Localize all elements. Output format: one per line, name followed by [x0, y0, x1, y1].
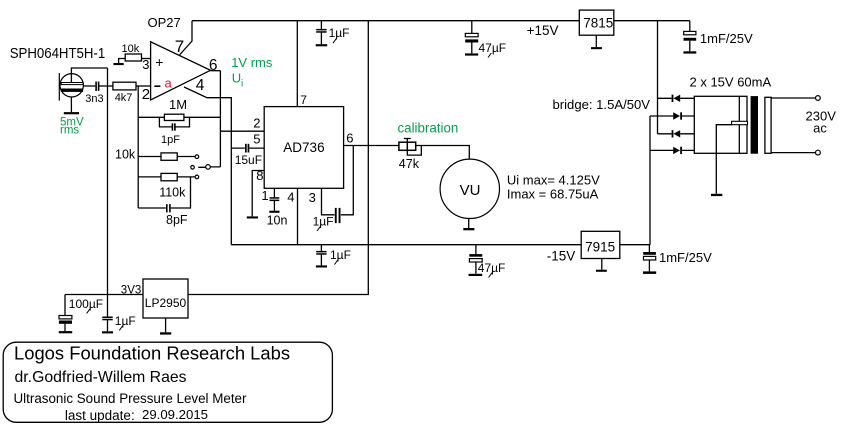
diode D1: [672, 95, 681, 102]
capacitor 47uF bottom lead: [475, 245, 477, 274]
wire 3n3 to 4k7: [99, 85, 113, 87]
svg-text:1pF: 1pF: [161, 134, 180, 146]
svg-text:15uF: 15uF: [235, 153, 262, 167]
trimmer 47k wiper loop: [407, 139, 421, 156]
svg-text:Ultrasonic Sound Pressure Leve: Ultrasonic Sound Pressure Level Meter: [14, 391, 247, 406]
svg-text:1mF/25V: 1mF/25V: [659, 250, 712, 265]
wire D3 row: [658, 133, 695, 135]
svg-text:dr.Godfried-Willem Raes: dr.Godfried-Willem Raes: [15, 369, 187, 386]
wire primary to terminal bottom: [771, 152, 816, 154]
capacitor 15uF: [245, 144, 249, 153]
svg-text:Ui max= 4.125V: Ui max= 4.125V: [507, 172, 600, 187]
svg-text:1µF: 1µF: [115, 314, 136, 328]
svg-text:1µF: 1µF: [329, 26, 350, 40]
trimmer 47k: [399, 142, 416, 150]
wire 110k branch: [138, 176, 195, 178]
diode D3: [672, 130, 681, 137]
svg-text:47µF: 47µF: [479, 41, 507, 55]
svg-text:4: 4: [196, 77, 205, 94]
wire -15V bottom rail: [231, 244, 650, 246]
capacitor 1pF: [172, 123, 176, 130]
svg-text:7: 7: [300, 93, 307, 107]
wire VU to ground: [468, 219, 470, 229]
svg-text:3V3: 3V3: [121, 284, 141, 296]
switch contact 110k: [195, 175, 199, 179]
wire 1pF parallel loop: [159, 117, 189, 127]
wire +15V top rail: [192, 20, 690, 22]
capacitor 47uF +15V: [465, 33, 478, 55]
svg-text:calibration: calibration: [398, 120, 459, 135]
svg-text:a: a: [165, 75, 173, 90]
svg-text:AD736: AD736: [283, 140, 324, 155]
capacitor 3n3: [95, 82, 99, 91]
wire output to AD736 pin2: [220, 130, 264, 132]
svg-text:+: +: [155, 54, 163, 70]
wire 3V3 node horizontal: [65, 294, 143, 296]
wire AD736 pin8 to ground: [252, 171, 264, 217]
svg-text:100µF: 100µF: [69, 297, 103, 311]
wire AD736 pin3 to 1uF: [322, 188, 335, 215]
svg-text:5: 5: [253, 132, 260, 147]
regulator 7915 ground lead: [601, 259, 603, 270]
wire LP2950 ground lead: [165, 318, 167, 332]
svg-text:ac: ac: [813, 120, 827, 135]
regulator LP2950: [143, 279, 188, 318]
wire 3V3 bias vertical: [107, 68, 109, 295]
wire bridge negative vertical: [649, 116, 651, 245]
svg-text:1: 1: [261, 188, 268, 203]
svg-text:7915: 7915: [585, 240, 615, 255]
svg-text:i: i: [241, 79, 243, 90]
svg-text:1µF: 1µF: [313, 214, 334, 228]
wire D4 row: [650, 149, 694, 151]
transformer center tap slot: [732, 121, 748, 124]
capacitor 100uF: [59, 316, 72, 334]
capacitor 1uF 3V3: [102, 317, 113, 334]
regulator 7815: [579, 10, 614, 35]
svg-text:3: 3: [142, 57, 149, 72]
svg-text:3: 3: [309, 190, 316, 205]
ground transformer center tap: [711, 194, 722, 196]
capacitor 1mF/25V -15V: [643, 252, 656, 274]
capacitor 1uF top rail lead: [320, 21, 322, 29]
capacitor 10n lead: [273, 188, 275, 210]
svg-text:Logos Foundation Research Labs: Logos Foundation Research Labs: [14, 342, 290, 363]
svg-text:LP2950: LP2950: [145, 296, 187, 310]
capacitor 1uF top rail: [316, 29, 328, 46]
trimmer 47k wiper top bar: [404, 138, 411, 140]
ground 7815: [591, 47, 602, 49]
wire primary to terminal top: [771, 97, 816, 99]
capacitor 1mF top lead: [689, 21, 691, 52]
terminal 230V bottom: [816, 150, 821, 155]
wire OP27 pin7 to +15V rail: [180, 21, 193, 55]
resistor 10k noninverting: [113, 54, 150, 65]
svg-text:8pF: 8pF: [166, 213, 188, 227]
svg-text:6: 6: [346, 130, 353, 145]
wire feedback bus vertical: [137, 86, 139, 208]
mu tail 1uF 3V3: [119, 326, 122, 331]
wire bridge positive vertical: [657, 21, 659, 134]
minus input: [154, 85, 160, 87]
switch pole: [206, 165, 211, 170]
svg-text:4: 4: [287, 190, 294, 205]
wire 15uF to pin5: [231, 147, 264, 149]
svg-text:last update:: last update:: [65, 408, 135, 423]
wire transformer center tap to ground: [716, 125, 731, 194]
wire 47k to VU meter: [416, 146, 470, 160]
terminal 230V top: [816, 96, 821, 101]
wire OP27 pin4 to -15V: [184, 87, 231, 245]
capacitor 1mF/25V +15V: [683, 31, 696, 53]
ground VU: [463, 228, 474, 230]
capacitor 10n: [269, 197, 279, 213]
capacitor 1uF 3V3 lead: [107, 295, 109, 332]
capacitor 47uF -15V: [469, 254, 483, 276]
wire switch pole to output bus: [198, 166, 220, 168]
ground LP2950: [160, 332, 171, 334]
capacitor 1mF bottom lead: [648, 245, 650, 272]
svg-text:Imax = 68.75uA: Imax = 68.75uA: [507, 186, 599, 201]
wire D2 row: [650, 115, 694, 117]
transformer T1 secondary: [694, 96, 747, 153]
transformer core: [751, 96, 758, 154]
svg-text:rms: rms: [60, 124, 79, 136]
capacitor 1uF below rail lead: [320, 245, 322, 266]
wire 8pF branch: [138, 177, 190, 208]
wire 4k7 to OP27 pin2: [136, 85, 151, 87]
switch contact 10k: [195, 155, 199, 159]
svg-text:U: U: [232, 71, 241, 86]
mu tail 100uF: [87, 309, 90, 314]
svg-text:1M: 1M: [169, 97, 187, 112]
microphone bottom lead: [70, 97, 72, 112]
svg-text:-15V: -15V: [547, 248, 576, 263]
svg-text:6: 6: [209, 57, 218, 74]
svg-text:2 x 15V 60mA: 2 x 15V 60mA: [690, 74, 772, 89]
svg-text:1µF: 1µF: [330, 248, 351, 262]
wire LP2950 input from +15: [188, 21, 368, 295]
capacitor 1uF below -15V rail: [316, 251, 327, 268]
svg-text:10k: 10k: [115, 148, 136, 162]
wire 1M branch: [138, 116, 220, 118]
wire AD736 pin6 output: [344, 145, 399, 147]
resistor 1M: [164, 114, 184, 120]
resistor 10k gain: [161, 153, 177, 160]
switch contact mid: [191, 166, 195, 170]
wire mic top lead to bias line: [71, 68, 107, 83]
svg-text:1mF/25V: 1mF/25V: [700, 31, 753, 46]
regulator 7815 ground lead: [595, 35, 597, 47]
wire OP27 output: [211, 70, 221, 72]
diode D4: [673, 147, 682, 154]
microphone SPH064HT5H-1: [59, 73, 83, 114]
regulator 7915: [581, 231, 620, 258]
svg-text:7: 7: [175, 37, 184, 56]
trimmer 47k wiper line: [406, 142, 408, 150]
wire mic output to 3n3: [83, 85, 95, 87]
svg-text:8: 8: [256, 168, 263, 183]
resistor 110k: [161, 173, 177, 180]
transformer T1 primary: [765, 97, 771, 153]
svg-text:1V rms: 1V rms: [231, 55, 273, 70]
mu tail 1uF below rail: [334, 260, 337, 265]
wire AD736 pin7 to +15V: [296, 21, 298, 107]
capacitor 100uF lead: [64, 295, 66, 332]
mu tail 1uF pin3: [317, 226, 320, 231]
svg-text:3n3: 3n3: [85, 93, 103, 105]
svg-text:2: 2: [253, 116, 260, 131]
resistor 4k7: [113, 82, 136, 90]
svg-text:110k: 110k: [159, 185, 186, 199]
svg-text:+15V: +15V: [527, 23, 559, 38]
svg-text:4k7: 4k7: [115, 92, 133, 104]
svg-text:29.09.2015: 29.09.2015: [142, 407, 208, 422]
capacitor 1uF top rail lead2: [320, 33, 322, 45]
wire 1uF pin3 to pin6: [341, 146, 353, 215]
diode D2: [673, 112, 682, 119]
mu tail 47uF top: [488, 53, 491, 58]
svg-text:VU: VU: [460, 182, 481, 199]
capacitor 47uF top lead: [471, 21, 473, 54]
wire 10k branch: [138, 156, 195, 158]
capacitor 1uF pin3: [335, 208, 341, 223]
capacitor 8pF: [166, 204, 171, 212]
svg-text:10k: 10k: [122, 43, 140, 55]
mu tail 1uF top: [333, 39, 336, 44]
wire output bus vertical: [219, 71, 221, 167]
svg-text:SPH064HT5H-1: SPH064HT5H-1: [10, 45, 106, 62]
title box: [3, 342, 332, 422]
mu tail 47uF bottom: [489, 273, 492, 278]
ground 7915: [596, 270, 607, 272]
svg-text:47k: 47k: [399, 157, 420, 171]
wire AD736 pin4 to -15V: [297, 188, 299, 244]
ground AD736 pin8: [247, 216, 258, 218]
svg-text:2: 2: [142, 86, 150, 103]
svg-text:7815: 7815: [583, 16, 613, 31]
VU meter: [440, 159, 499, 218]
op-amp U1 OP27: [151, 42, 211, 100]
svg-text:OP27: OP27: [148, 15, 181, 30]
IC U2 AD736: [264, 107, 343, 189]
wire D1 anode row: [658, 97, 695, 99]
svg-text:10n: 10n: [267, 213, 288, 227]
svg-text:bridge: 1.5A/50V: bridge: 1.5A/50V: [553, 97, 651, 112]
